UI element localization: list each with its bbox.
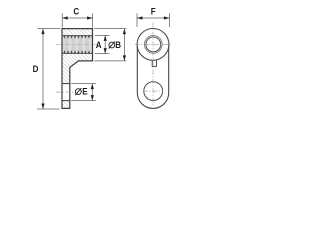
label diameter symbol B <box>109 41 115 48</box>
arrow C left <box>62 16 67 19</box>
part outline <box>62 29 93 109</box>
thread minor circle <box>146 37 161 52</box>
arrow D bottom <box>41 104 44 110</box>
arrow E bottom <box>91 95 94 101</box>
hole E top edge <box>62 83 70 85</box>
dim E extension lines <box>71 83 96 85</box>
hatch plate below hole <box>62 101 70 109</box>
thread major boundary bottom <box>62 53 93 55</box>
arrow A top <box>104 35 107 41</box>
arrow F left <box>137 16 143 19</box>
chamfer tab below boss <box>152 60 156 67</box>
horizontal centerline bottom hole <box>143 90 164 92</box>
dim E line <box>91 84 93 101</box>
arrow F right <box>164 16 170 19</box>
dim A line <box>104 35 106 53</box>
thread major circle <box>144 36 162 54</box>
arrow D top <box>41 29 44 34</box>
arrow E top <box>91 84 94 90</box>
thread major boundary top <box>62 34 93 36</box>
svg-text:B: B <box>115 40 121 51</box>
thread striations <box>63 36 91 53</box>
horizontal centerline boss <box>135 43 171 45</box>
hole E bottom edge <box>62 100 70 102</box>
dim C extension lines <box>61 13 63 27</box>
thread teeth top <box>63 36 92 39</box>
thread teeth bottom <box>63 50 92 53</box>
label diameter symbol E <box>75 88 81 95</box>
arrow B bottom <box>123 55 126 61</box>
svg-text:E: E <box>82 86 87 97</box>
svg-text:A: A <box>96 40 102 51</box>
arrow B top <box>123 29 126 34</box>
dim C line <box>62 17 92 19</box>
hatch top wall <box>62 29 93 36</box>
dim F extension lines <box>136 13 138 27</box>
svg-text:F: F <box>151 6 156 17</box>
dim B line <box>123 29 125 61</box>
bottom hole circle <box>144 82 163 101</box>
arrow A bottom <box>104 48 107 54</box>
centerline hole E axis <box>56 91 75 93</box>
svg-text:C: C <box>73 6 79 17</box>
dim D line <box>42 29 44 109</box>
dim B extension lines <box>94 28 126 30</box>
hatch bottom wall and plate upper <box>62 54 93 84</box>
vertical centerline <box>152 23 154 106</box>
boss circle <box>137 29 169 61</box>
centerline thread axis <box>56 44 97 46</box>
dim F line <box>137 17 169 19</box>
dim D extension lines <box>37 28 60 30</box>
svg-text:D: D <box>33 63 39 74</box>
arrow C right <box>87 16 93 19</box>
body outline sides and bottom arc <box>137 46 168 108</box>
dim A extension lines <box>95 34 110 36</box>
